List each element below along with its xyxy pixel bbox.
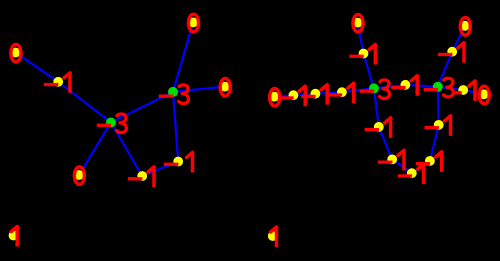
- node D label 0: [74, 167, 84, 185]
- node E2 label -1: [425, 115, 451, 136]
- node G2 dot: [433, 82, 443, 92]
- node R dot: [479, 89, 489, 99]
- node G1 dot: [369, 83, 379, 93]
- node R label 0: [479, 86, 489, 104]
- node B dot: [53, 77, 63, 87]
- node Q dot: [458, 85, 468, 95]
- node T label 0: [353, 14, 363, 32]
- node S label -1: [349, 44, 375, 65]
- node X label -1: [378, 150, 404, 171]
- wire edge C-D: [79, 123, 111, 176]
- node X dot: [387, 155, 397, 165]
- node L dot: [289, 90, 299, 100]
- wire edge X-Y: [392, 159, 412, 173]
- node H dot: [188, 18, 198, 28]
- wire edge G1-S: [364, 54, 374, 89]
- wire edge G-I: [173, 87, 225, 92]
- wire edge S-T: [358, 23, 364, 54]
- node N label -1: [328, 82, 354, 103]
- wire edge Z-E2: [430, 125, 439, 161]
- node J label 1: [11, 226, 17, 247]
- node L label -1: [279, 85, 305, 106]
- node F dot: [173, 157, 183, 167]
- node Z label -1: [416, 151, 442, 172]
- wire edge F-G: [173, 92, 178, 162]
- wire edge C-G: [111, 92, 173, 123]
- wire edge G-H: [173, 22, 193, 92]
- node M label -1: [301, 84, 327, 105]
- node V label 0: [460, 18, 470, 36]
- wire edge W-X: [379, 127, 392, 159]
- node Y dot: [407, 168, 417, 178]
- node U label -1: [438, 42, 464, 63]
- node U dot: [447, 47, 457, 57]
- wire edge P-G2: [405, 85, 437, 87]
- node W dot: [374, 122, 384, 132]
- wire edge G1-W: [374, 88, 379, 127]
- node A label 0: [11, 44, 21, 62]
- node H label 0: [188, 14, 198, 32]
- node G label -3: [159, 85, 189, 104]
- node E2 dot: [434, 120, 444, 130]
- wire edge K-L: [274, 95, 293, 97]
- node J2 label 1: [271, 226, 277, 247]
- node K label 0: [270, 89, 280, 107]
- node Y label -1: [398, 163, 424, 184]
- wire edge Y-Z: [412, 161, 430, 173]
- wire edge Q-R: [463, 90, 484, 94]
- node D dot: [74, 170, 84, 180]
- node K dot: [269, 92, 279, 102]
- node V dot: [460, 21, 470, 31]
- node P label -1: [391, 75, 417, 96]
- wire edge E2-G2: [437, 87, 440, 125]
- node Q label -1: [453, 80, 475, 101]
- node C dot: [106, 118, 116, 128]
- wire edge G2-U: [438, 52, 452, 87]
- node M dot: [311, 89, 321, 99]
- node E label -1: [128, 166, 154, 187]
- node G2 label -3: [424, 78, 454, 97]
- wire edge G2-Q: [438, 87, 463, 90]
- node S dot: [359, 49, 369, 59]
- node T dot: [353, 18, 363, 28]
- node J2 dot: [268, 231, 278, 241]
- node I label 0: [220, 78, 230, 96]
- node N dot: [337, 87, 347, 97]
- node Z dot: [425, 156, 435, 166]
- node G dot: [168, 87, 178, 97]
- wire edge N-G1: [342, 88, 374, 92]
- wire edge E-F: [142, 162, 178, 177]
- node A dot: [11, 48, 21, 58]
- wire edge U-V: [452, 26, 465, 52]
- node G1 label -3: [360, 80, 390, 99]
- wire edge L-M: [293, 94, 315, 96]
- node J dot: [9, 231, 19, 241]
- wire edge G1-P: [374, 85, 406, 89]
- node I dot: [220, 82, 230, 92]
- wire edge C-E: [111, 123, 142, 177]
- wire edge A-B: [16, 53, 59, 82]
- node F label -1: [164, 152, 193, 173]
- wire edge M-N: [315, 92, 342, 94]
- node C label -3: [97, 114, 127, 133]
- node W label -1: [365, 117, 391, 138]
- wire edge B-C: [58, 82, 111, 123]
- node P dot: [401, 80, 411, 90]
- node E dot: [137, 171, 147, 181]
- node B label -1: [44, 72, 70, 93]
